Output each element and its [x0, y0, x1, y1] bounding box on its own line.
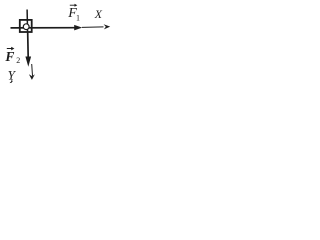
X axis line [82, 26, 104, 29]
label F2 (vector F with subscript 2) [4, 47, 20, 65]
label Y [8, 68, 17, 83]
Y axis line [31, 64, 34, 76]
label X [94, 7, 103, 21]
svg-text:F: F [4, 49, 14, 64]
Y axis arrowhead [29, 74, 35, 80]
svg-text:1: 1 [76, 14, 80, 23]
svg-text:2: 2 [16, 56, 20, 65]
square block body [20, 20, 32, 32]
X axis arrowhead [104, 24, 111, 29]
force F2 arrow (line from block down to solid arrowhead) [25, 33, 31, 67]
svg-text:X: X [94, 7, 103, 21]
label F1 (vector F with subscript 1) [67, 4, 80, 23]
force F1 arrow (line from block to solid arrowhead) [11, 25, 83, 31]
pivot circle at block center [23, 24, 29, 30]
vertical crosshair line through block [26, 10, 29, 34]
